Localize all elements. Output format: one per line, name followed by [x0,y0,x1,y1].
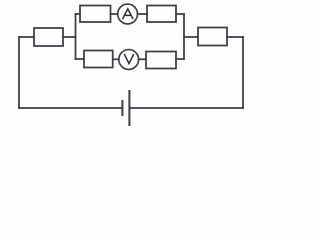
resistor R6 (right middle) [198,28,227,46]
ammeter label A [123,9,134,19]
wire: left vertical of outer loop [18,37,20,108]
resistor R2 (top left of ammeter branch) [80,6,111,23]
wire: left lead into R1 [19,36,34,38]
wire: right vertical of outer loop [242,37,244,108]
resistor R1 (left middle) [34,28,63,46]
ammeter M1 circle [118,4,138,24]
voltmeter M2 circle [119,50,139,70]
wire: voltmeter to R5 [139,58,146,60]
resistor R4 (bottom left of voltmeter branch) [84,51,113,68]
wire: ammeter to R3 [138,13,148,15]
battery B1 short plate [121,101,123,115]
wire: R1 to left junction [63,36,76,38]
battery B1 long plate [128,91,130,125]
wire: bottom left segment (to battery) [19,107,122,109]
resistor R5 (bottom right of voltmeter branch) [146,52,176,69]
wire: R6 to right vertical [227,36,243,38]
wire: right junction to R6 [184,36,198,38]
wire: right junction vertical [183,14,185,59]
wire: left junction to bottom resistor [76,58,85,60]
wire: bottom right segment (from battery) [130,107,243,109]
wire: R5 to right junction [176,58,184,60]
wire: left junction vertical [75,14,77,59]
wire: left junction to top resistor [76,13,81,15]
wire: R4 to voltmeter [113,58,119,60]
voltmeter label V [124,54,133,64]
resistor R3 (top right of ammeter branch) [147,6,176,23]
wire: R2 to ammeter [111,13,118,15]
wire: R3 to right junction [176,13,184,15]
